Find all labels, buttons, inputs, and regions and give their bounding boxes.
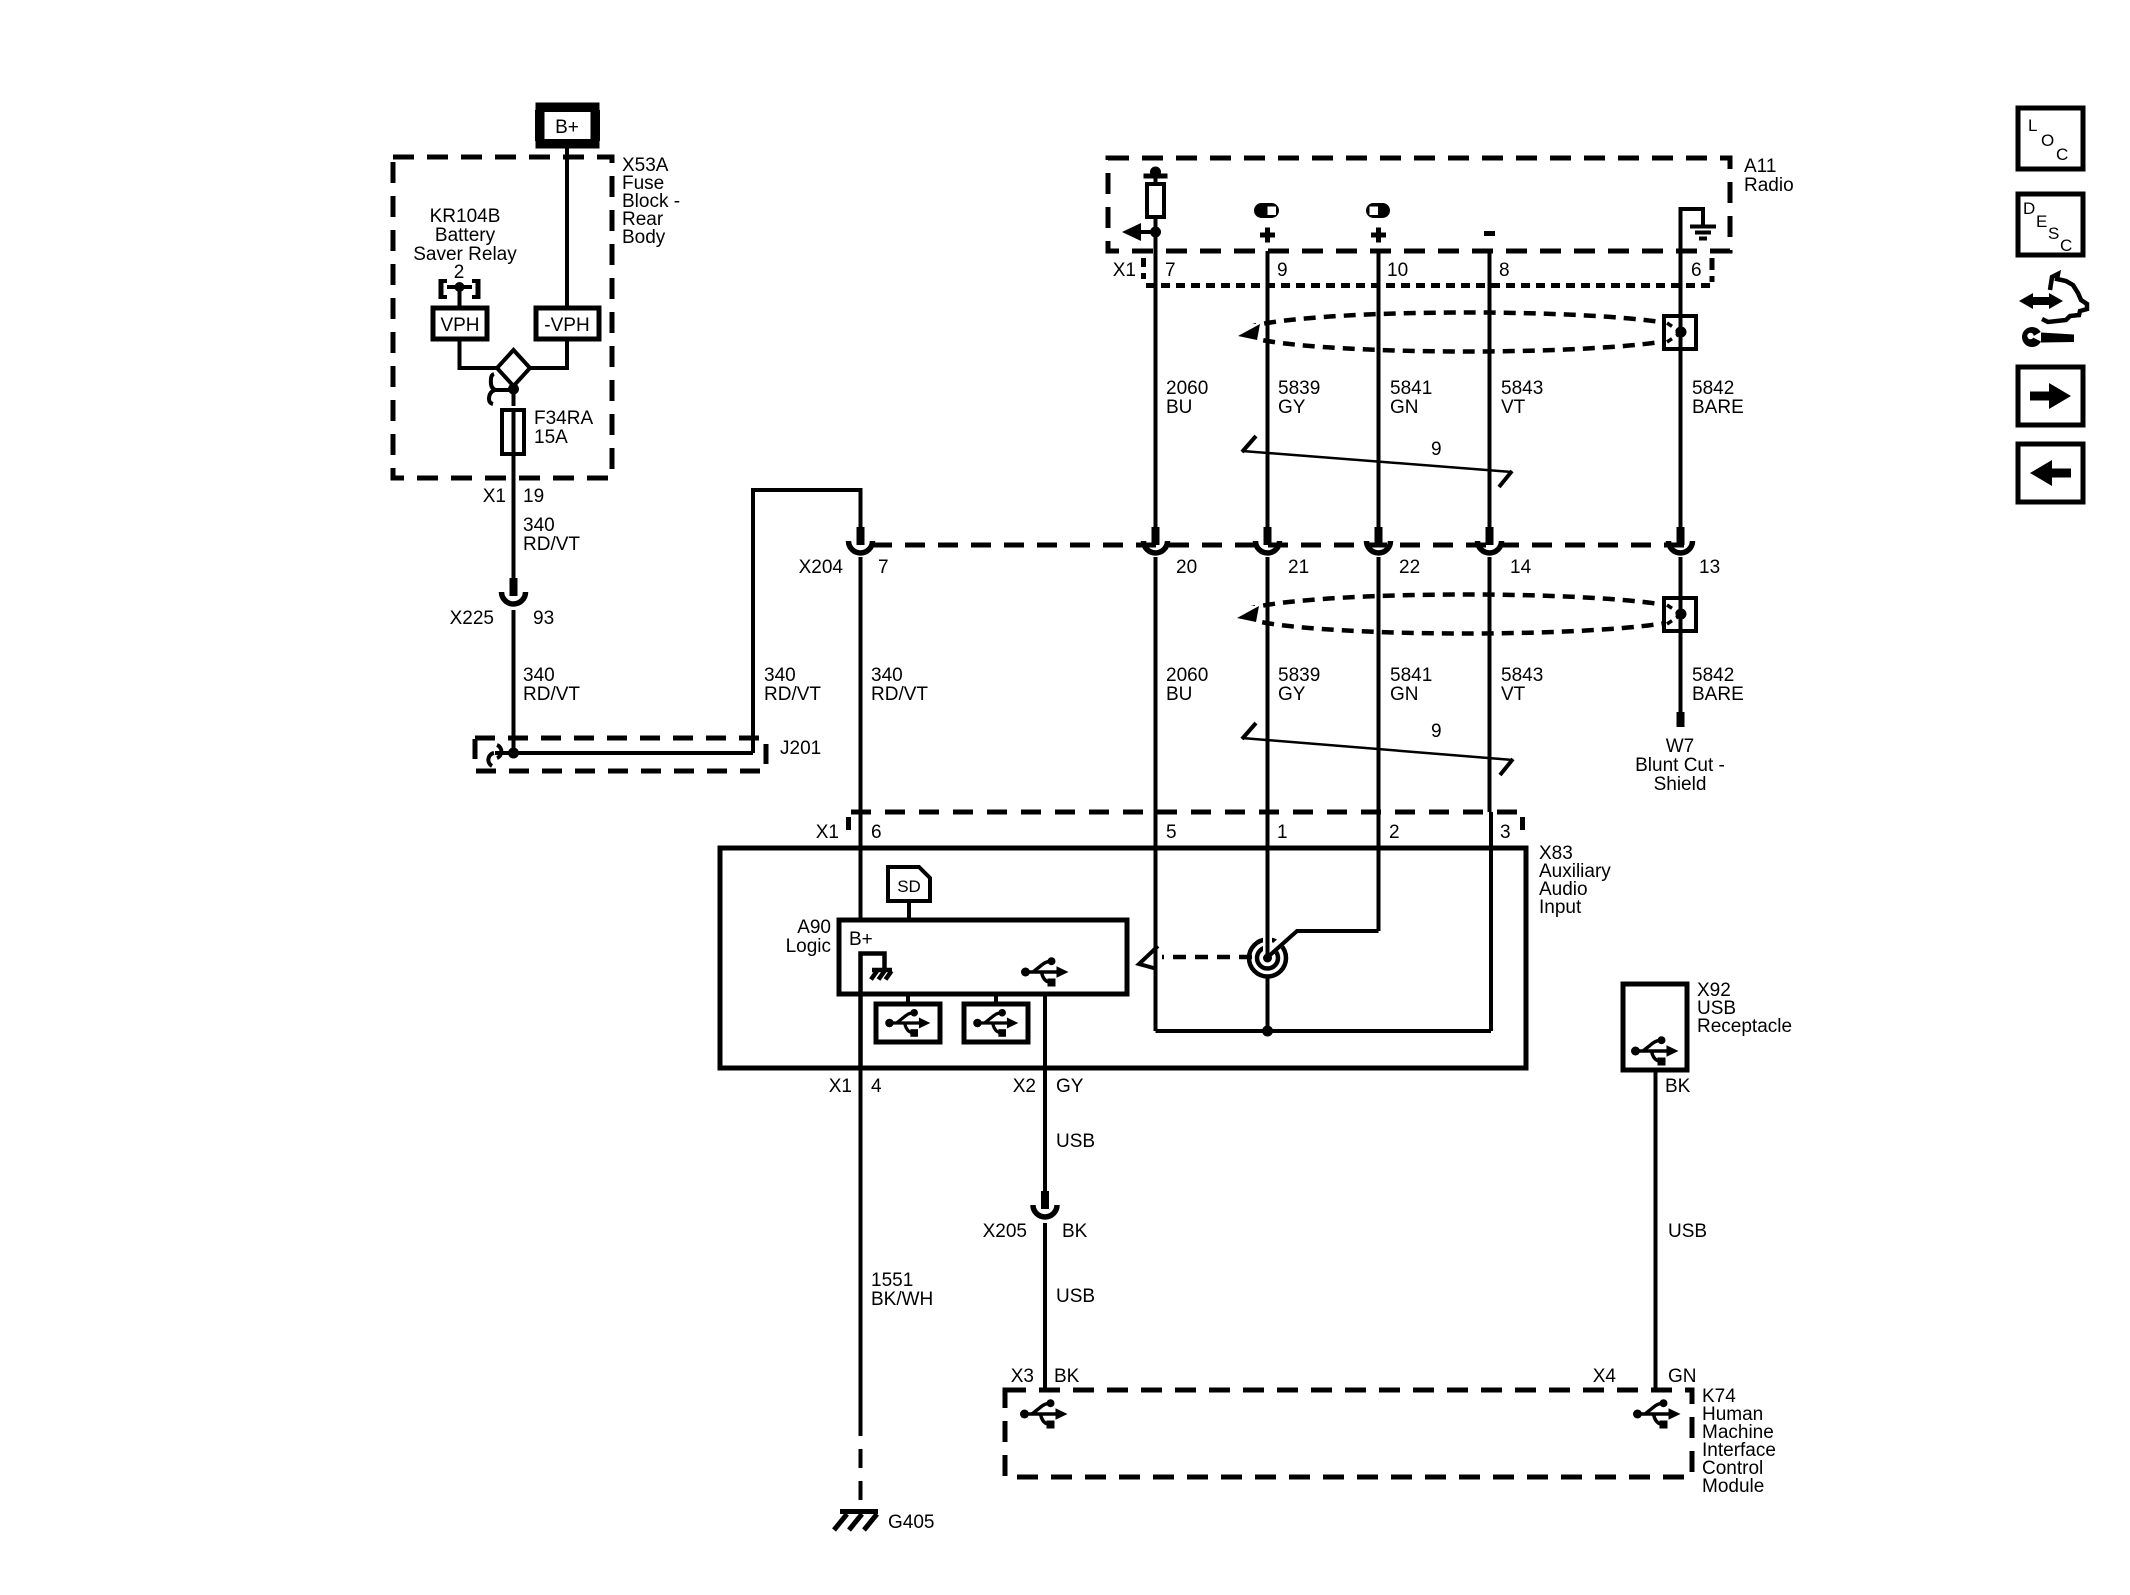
radio X1 connector dotted line — [1144, 258, 1715, 286]
svg-text:O: O — [2041, 131, 2054, 150]
label A90 Logic — [786, 917, 831, 957]
svg-text:2: 2 — [454, 262, 465, 283]
svg-text:GN: GN — [1390, 397, 1419, 418]
label X92 USB Receptacle — [1697, 980, 1792, 1037]
icon box LOC — [2018, 108, 2083, 169]
wire fuse to X1 pin 19 — [512, 454, 516, 578]
twist marker lower with label 9 — [1242, 723, 1513, 775]
svg-text:BARE: BARE — [1692, 397, 1744, 418]
wires below connector row — [859, 557, 863, 812]
svg-text:VT: VT — [1501, 397, 1526, 418]
svg-text:GY: GY — [1278, 397, 1306, 418]
K74 HMI dashed box — [1005, 1390, 1692, 1477]
connector 20 — [1144, 527, 1168, 553]
splice J201 bus wire — [488, 745, 753, 766]
svg-text:B+: B+ — [849, 929, 873, 950]
wire 5841 GN radio pin10 down — [1377, 251, 1381, 527]
icon box arrow right — [2018, 367, 2083, 425]
svg-text:B+: B+ — [555, 117, 579, 138]
svg-text:93: 93 — [533, 608, 554, 629]
svg-text:L: L — [2028, 116, 2037, 135]
svg-text:GN: GN — [1390, 684, 1419, 705]
svg-text:RD/VT: RD/VT — [764, 684, 821, 705]
svg-text:X205: X205 — [983, 1221, 1027, 1242]
svg-text:6: 6 — [1691, 260, 1702, 281]
plus sign pin 9 — [1260, 228, 1275, 243]
diamond junction — [497, 350, 530, 386]
radio pin labels X1 7 9 10 8 6 — [1113, 260, 1702, 281]
svg-text:X1: X1 — [816, 822, 839, 843]
svg-text:8: 8 — [1499, 260, 1510, 281]
label X204 7 — [799, 557, 889, 578]
svg-text:USB: USB — [1056, 1286, 1095, 1307]
svg-text:G405: G405 — [888, 1512, 934, 1533]
svg-text:Battery: Battery — [435, 225, 496, 246]
svg-text:9: 9 — [1431, 721, 1442, 742]
svg-text:RD/VT: RD/VT — [523, 684, 580, 705]
svg-text:USB: USB — [1668, 1221, 1707, 1242]
svg-text:BK: BK — [1665, 1076, 1691, 1097]
svg-text:D: D — [2023, 199, 2035, 218]
shield termination box lower — [1664, 598, 1696, 631]
relay KR104B coil — [439, 279, 480, 307]
in-line connector row dashed line — [872, 543, 1693, 548]
svg-text:GY: GY — [1278, 684, 1306, 705]
svg-text:9: 9 — [1431, 439, 1442, 460]
fuse block X53A dashed box — [393, 157, 612, 478]
stub A90 to USB box 2 — [994, 994, 998, 1004]
label K74 Human Machine Interface Control Module — [1702, 1386, 1776, 1497]
svg-text:X3: X3 — [1011, 1366, 1034, 1387]
in-line connector X205 — [1033, 1191, 1057, 1217]
svg-text:5841: 5841 — [1390, 378, 1432, 399]
icon box DESC — [2018, 194, 2083, 255]
svg-text:KR104B: KR104B — [430, 206, 501, 227]
wire 2060 BU radio pin7 to X204 row — [1154, 251, 1158, 527]
svg-text:340: 340 — [523, 515, 555, 536]
wire -VPH to diamond — [530, 339, 567, 368]
svg-text:9: 9 — [1277, 260, 1288, 281]
wire 5842 BARE to blunt cut — [1679, 557, 1683, 712]
svg-text:6: 6 — [871, 822, 882, 843]
label X83 Auxiliary Audio Input — [1539, 843, 1611, 918]
blunt cut W7 wire end — [1677, 712, 1685, 727]
label 340 RD/VT at J201 riser — [764, 665, 821, 705]
svg-text:GY: GY — [1056, 1076, 1084, 1097]
svg-text:7: 7 — [878, 557, 889, 578]
svg-text:Receptacle: Receptacle — [1697, 1016, 1792, 1037]
splice J201 dashed box — [475, 738, 766, 771]
svg-text:S: S — [2048, 224, 2059, 243]
USB port box 2 — [964, 1004, 1028, 1042]
svg-text:22: 22 — [1399, 557, 1420, 578]
wire labels row 2 — [871, 665, 928, 705]
svg-text:5841: 5841 — [1390, 665, 1432, 686]
label 340 RD/VT lower-left — [523, 665, 580, 705]
label F34RA 15A — [534, 408, 593, 448]
USB symbol in K74 left — [1020, 1399, 1068, 1428]
junction dot below diamond — [508, 384, 519, 395]
node down to bus — [1266, 976, 1270, 1031]
wire A90 USB to X2 — [1043, 994, 1047, 1068]
SD card symbol — [888, 867, 930, 920]
svg-text:13: 13 — [1699, 557, 1720, 578]
svg-text:A11: A11 — [1744, 156, 1776, 177]
wire X205 to K74 X3 — [1043, 1223, 1047, 1390]
svg-text:Module: Module — [1702, 1476, 1764, 1497]
svg-text:3: 3 — [1500, 822, 1511, 843]
svg-text:2060: 2060 — [1166, 378, 1208, 399]
wire 5843 VT radio pin8 down — [1488, 251, 1492, 527]
USB symbol inside A90 — [1021, 957, 1069, 986]
svg-text:BU: BU — [1166, 397, 1192, 418]
svg-text:BU: BU — [1166, 684, 1192, 705]
shield node (concentric) — [1249, 930, 1290, 977]
svg-text:C: C — [2056, 145, 2068, 164]
svg-text:14: 14 — [1510, 557, 1532, 578]
wire X92 to K74 X4 — [1654, 1070, 1658, 1390]
relay contact box VPH — [433, 308, 487, 339]
power symbol B+ — [536, 107, 599, 144]
svg-text:340: 340 — [523, 665, 555, 686]
plus sign pin 10 — [1371, 228, 1386, 243]
svg-text:5842: 5842 — [1692, 378, 1734, 399]
label 1551 BK/WH — [871, 1270, 933, 1310]
svg-text:1551: 1551 — [871, 1270, 913, 1291]
svg-text:X225: X225 — [450, 608, 494, 629]
svg-text:5: 5 — [1166, 822, 1177, 843]
svg-text:BK: BK — [1054, 1366, 1080, 1387]
A90 internal ground and X1-4 trace — [861, 954, 893, 1069]
wire X2 to X205 (USB) — [1043, 1068, 1047, 1191]
X83 X1 pin labels — [816, 822, 1511, 843]
A90 logic box — [839, 920, 1127, 994]
svg-text:A90: A90 — [797, 917, 831, 938]
svg-text:BK/WH: BK/WH — [871, 1289, 933, 1310]
in-line connector X225 — [502, 578, 526, 604]
svg-text:Saver Relay: Saver Relay — [413, 244, 517, 265]
svg-text:-VPH: -VPH — [544, 315, 589, 336]
antenna symbol — [1122, 167, 1168, 252]
X83 box — [720, 848, 1526, 1068]
connector 21 — [1256, 527, 1280, 553]
svg-text:20: 20 — [1176, 557, 1197, 578]
junction dot on bus — [1262, 1026, 1273, 1037]
dashed drain arrow to pin5 wire — [1139, 946, 1252, 969]
svg-text:4: 4 — [871, 1076, 882, 1097]
svg-text:10: 10 — [1387, 260, 1408, 281]
svg-text:Shield: Shield — [1654, 774, 1707, 795]
svg-text:E: E — [2036, 212, 2047, 231]
twisted/shield ellipse upper — [1236, 313, 1692, 352]
svg-text:X1: X1 — [1113, 260, 1136, 281]
X83 bottom pin labels X1 4 / X2 GY — [829, 1076, 1084, 1097]
shield termination box upper (pin 6 wire) — [1664, 316, 1696, 349]
svg-text:340: 340 — [764, 665, 796, 686]
dashed wire to G405 — [859, 1417, 863, 1509]
wire J201 up to X204 — [753, 490, 861, 753]
svg-text:X4: X4 — [1593, 1366, 1617, 1387]
radio internal ground pin 6 — [1679, 207, 1717, 251]
svg-text:USB: USB — [1056, 1131, 1095, 1152]
label X1 19 — [483, 486, 544, 507]
wire B+ down to -VPH — [565, 148, 569, 307]
label X225 93 — [450, 608, 555, 629]
stub A90 to USB box 1 — [906, 994, 910, 1004]
svg-text:F34RA: F34RA — [534, 408, 593, 429]
svg-text:340: 340 — [871, 665, 903, 686]
svg-text:X204: X204 — [799, 557, 844, 578]
connector 22 — [1367, 527, 1391, 553]
icon component view (arrow, panel, wrench) — [2019, 274, 2087, 347]
svg-text:19: 19 — [523, 486, 544, 507]
relay contact box -VPH — [536, 308, 599, 339]
svg-text:GN: GN — [1668, 1366, 1697, 1387]
wire diamond to fuse — [512, 386, 516, 406]
svg-text:Input: Input — [1539, 897, 1582, 918]
wire X225 to J201 — [512, 610, 516, 754]
svg-text:W7: W7 — [1666, 736, 1695, 757]
svg-text:2: 2 — [1389, 822, 1400, 843]
icon box arrow left — [2018, 444, 2083, 502]
wire pin2 jog to node — [1269, 931, 1379, 956]
speaker marker pin 10 — [1366, 203, 1390, 218]
ground G405 — [834, 1512, 878, 1531]
label X53A Fuse Block - Rear Body — [622, 155, 680, 248]
X83 X1 connector dashed line — [849, 812, 1523, 830]
relay KR104B labels — [413, 206, 517, 283]
connector row pin labels — [1176, 557, 1720, 578]
connector 13 — [1669, 527, 1693, 553]
svg-text:Body: Body — [622, 227, 666, 248]
svg-text:RD/VT: RD/VT — [871, 684, 928, 705]
twist marker upper with label 9 — [1242, 436, 1512, 487]
radio A11 dashed box — [1108, 158, 1730, 251]
svg-text:2060: 2060 — [1166, 665, 1208, 686]
wire X1-4 down (1551 BK/WH) — [859, 1068, 863, 1417]
svg-text:BARE: BARE — [1692, 684, 1744, 705]
speaker marker pin 9 — [1254, 203, 1279, 218]
svg-text:15A: 15A — [534, 427, 568, 448]
minus sign pin 8 — [1484, 231, 1495, 236]
svg-text:Blunt Cut -: Blunt Cut - — [1635, 755, 1725, 776]
USB symbol in K74 right — [1633, 1399, 1681, 1428]
USB port box 1 — [876, 1004, 940, 1042]
X83 internal bus wire — [1156, 1029, 1492, 1033]
wire 5839 GY radio pin9 down — [1266, 251, 1270, 527]
svg-text:X1: X1 — [483, 486, 506, 507]
svg-text:RD/VT: RD/VT — [523, 534, 580, 555]
svg-text:21: 21 — [1288, 557, 1309, 578]
svg-text:Logic: Logic — [786, 936, 831, 957]
fuse F34RA — [502, 410, 524, 454]
wires into X83 from X1 row — [859, 812, 863, 920]
svg-text:VT: VT — [1501, 684, 1526, 705]
svg-text:SD: SD — [897, 877, 921, 896]
svg-text:BK: BK — [1062, 1221, 1088, 1242]
svg-text:5843: 5843 — [1501, 665, 1543, 686]
wire labels row 1 — [1166, 378, 1208, 418]
svg-text:X1: X1 — [829, 1076, 852, 1097]
connector 14 — [1478, 527, 1502, 553]
wire 5842 BARE radio pin6 down — [1679, 251, 1683, 527]
svg-text:Radio: Radio — [1744, 175, 1794, 196]
relay switch squiggle — [489, 374, 513, 404]
twisted/shield ellipse lower — [1235, 595, 1691, 634]
wire VPH to diamond — [460, 339, 498, 368]
label A11 Radio — [1744, 156, 1794, 196]
svg-text:J201: J201 — [780, 738, 821, 759]
svg-text:5842: 5842 — [1692, 665, 1734, 686]
label 340 RD/VT upper — [523, 515, 580, 555]
svg-text:C: C — [2060, 236, 2072, 255]
in-line connector X204 pin 7 — [849, 527, 873, 553]
svg-text:7: 7 — [1165, 260, 1176, 281]
svg-text:5843: 5843 — [1501, 378, 1543, 399]
labels X3 BK / X4 GN — [1011, 1366, 1697, 1387]
label W7 Blunt Cut - Shield — [1635, 736, 1725, 795]
svg-text:VPH: VPH — [440, 315, 479, 336]
svg-text:5839: 5839 — [1278, 665, 1320, 686]
svg-text:5839: 5839 — [1278, 378, 1320, 399]
svg-text:X2: X2 — [1013, 1076, 1036, 1097]
svg-text:1: 1 — [1277, 822, 1288, 843]
X92 USB receptacle box — [1623, 984, 1687, 1070]
label X205 BK — [983, 1221, 1088, 1242]
